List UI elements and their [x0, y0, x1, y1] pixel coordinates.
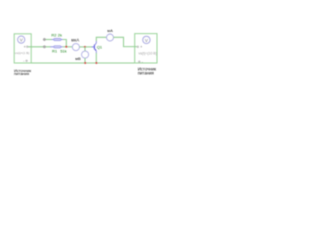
svg-text:-: -	[142, 60, 143, 64]
resistor R2	[52, 38, 63, 40]
svg-text:R1: R1	[52, 48, 58, 53]
resistor R1	[50, 46, 63, 48]
plus terminal of right box	[137, 45, 142, 49]
wire: bottom rail	[31, 62, 135, 64]
wire: R2 right lead down to junction	[63, 40, 67, 47]
svg-text:мВ: мВ	[75, 56, 81, 61]
svg-text:питания: питания	[14, 71, 29, 76]
wire: left box + terminal to R1	[28, 46, 51, 48]
wire: top pin to R2 left lead	[46, 39, 52, 41]
svg-text:vs(t)=(1 В): vs(t)=(1 В)	[15, 51, 30, 55]
wire: R1 to microammeter	[63, 46, 73, 48]
minus terminal of left box	[23, 59, 27, 63]
subcircuit box X2 (right power source)	[135, 34, 157, 63]
svg-text:R2: R2	[51, 33, 57, 38]
svg-text:Q1: Q1	[97, 44, 102, 49]
wire: top rail from meter, corner down to right box plus terminal	[113, 37, 137, 46]
svg-text:51k: 51k	[60, 48, 66, 53]
unconnected pin at R2 input	[43, 38, 45, 40]
svg-text:2k: 2k	[58, 33, 62, 38]
wire: emitter down to bottom rail	[95, 53, 97, 63]
junction dot emitter/rail	[95, 62, 97, 64]
wire: collector riser to top rail	[96, 37, 106, 41]
svg-text:-: -	[23, 59, 24, 63]
plus terminal of left box	[24, 45, 29, 49]
junction dot at millivoltmeter branch	[84, 46, 86, 48]
svg-text:+: +	[140, 45, 142, 49]
milliammeter мА	[107, 34, 114, 41]
svg-text:мкА: мкА	[71, 37, 79, 42]
millivoltmeter мВ	[82, 51, 89, 58]
svg-text:+: +	[24, 45, 26, 49]
microammeter мкА	[72, 44, 79, 51]
transistor Q1	[92, 41, 97, 53]
wire: meter to junction 2	[79, 46, 92, 48]
label under right box: Источник питания	[138, 67, 156, 76]
svg-text:V: V	[20, 37, 23, 42]
junction dot R2/R1	[65, 46, 67, 48]
svg-text:vs(t)=(10 В): vs(t)=(10 В)	[139, 52, 157, 56]
pin on R1 wire	[43, 46, 45, 48]
voltmeter symbol V inside right box	[143, 36, 150, 43]
junction dot millivoltmeter/rail	[84, 62, 86, 64]
wire: millivoltmeter down to bottom rail	[84, 58, 86, 63]
svg-text:V: V	[145, 38, 148, 43]
minus terminal of right box	[138, 60, 143, 64]
svg-text:мА: мА	[107, 28, 113, 33]
wire: junction down to millivoltmeter	[84, 47, 86, 52]
svg-text:питания: питания	[138, 70, 155, 75]
label under left box: Источник питания	[14, 68, 31, 76]
subcircuit box X1 (left power source)	[14, 34, 31, 63]
voltmeter symbol V inside left box	[18, 36, 25, 43]
